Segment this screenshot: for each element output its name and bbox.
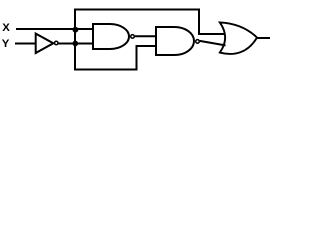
node junction dot on X wire <box>73 27 79 33</box>
svg-text:Y: Y <box>2 38 10 50</box>
nand U2 body <box>93 24 129 49</box>
wire feedback top rail <box>74 8 200 10</box>
inverter U1 bubble <box>55 41 59 45</box>
wire output <box>257 37 271 39</box>
wire NOT-Y to NAND U2 input 2 <box>58 43 93 45</box>
svg-text:X: X <box>2 22 10 34</box>
wire feedback right vertical to OR input <box>199 9 226 35</box>
nand U2 bubble <box>131 35 135 39</box>
or gate U4 <box>220 22 257 54</box>
wire X input <box>16 28 94 30</box>
wire Y input <box>15 43 36 45</box>
wire bottom rail <box>75 46 157 70</box>
inverter U1 triangle <box>36 34 54 53</box>
nand U3 bubble <box>196 40 200 44</box>
wire feedback left vertical <box>74 9 76 70</box>
nand U3 body <box>156 27 194 55</box>
node junction dot on NOT-Y wire <box>72 41 78 47</box>
wire U2 output to NAND U3 input 1 <box>135 35 157 37</box>
wire U3 output to OR input <box>200 41 226 46</box>
